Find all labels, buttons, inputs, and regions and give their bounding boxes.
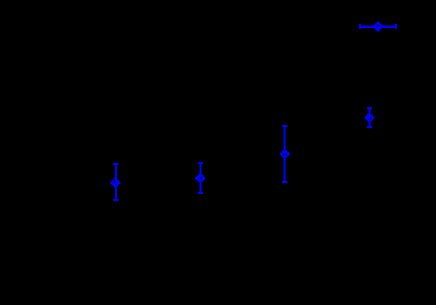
data point P1 marker xyxy=(110,177,121,188)
data point P4 marker xyxy=(364,112,375,123)
data point P2 marker xyxy=(195,173,206,184)
data point P3 errorbar xyxy=(282,125,287,183)
key sample horizontal errorbar xyxy=(359,24,397,29)
data point P1 errorbar xyxy=(113,163,118,201)
data point P3 marker xyxy=(280,149,291,160)
data point P2 errorbar xyxy=(198,162,203,194)
data point P4 errorbar xyxy=(367,107,372,128)
key sample marker xyxy=(373,21,384,32)
